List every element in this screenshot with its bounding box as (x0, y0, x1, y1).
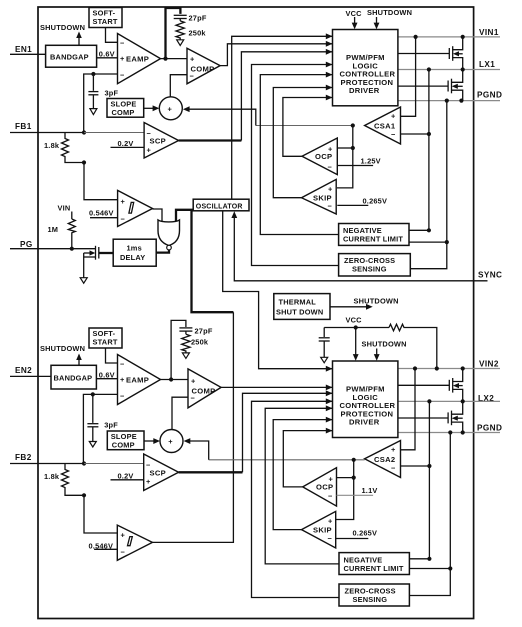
0.546V reference label (ch2) (89, 542, 118, 551)
wire SHUTDOWN to PWM2 (arrow) (374, 349, 380, 361)
wire thermal shutdown output (arrow) (330, 304, 373, 310)
wire slope comp2 to summer2 (arrow) (144, 438, 160, 444)
wire PGCMP1 output to OR gate (153, 209, 163, 222)
wire summer2 to COMP2 minus (172, 397, 188, 429)
comparator OCP1 (302, 138, 337, 175)
node PGND1 / FET source (459, 99, 463, 103)
current sense amp CSA1 (365, 107, 401, 144)
svg-text:250k: 250k (189, 29, 207, 38)
transistor lowside FET (ch2) (448, 401, 463, 432)
node VIN1 / FET drain (461, 35, 465, 39)
node PG / 1M junction (70, 247, 74, 251)
wire soft-start1 to EAMP1 minus (106, 28, 118, 43)
svg-text:−: − (146, 461, 151, 470)
svg-text:CURRENT LIMIT: CURRENT LIMIT (344, 564, 404, 573)
svg-text:EN1: EN1 (15, 45, 32, 54)
svg-text:−: − (120, 360, 125, 369)
svg-text:COMP: COMP (112, 441, 135, 450)
wire oscillator to PWM2 input1 (223, 211, 333, 372)
wire CSA1 output to OCP1/SKIP1 plus (337, 126, 353, 188)
svg-text:27pF: 27pF (195, 327, 213, 336)
wire PWM1 lowside gate (398, 85, 448, 87)
node LX2 / FET (461, 399, 465, 403)
svg-text:START: START (93, 17, 118, 26)
pin LX2 (398, 394, 500, 403)
wire bandgap2 to shutdown arrow (76, 354, 82, 366)
svg-text:1.1V: 1.1V (362, 486, 378, 495)
svg-text:+: + (391, 445, 396, 454)
wire OCP2 output to PWM2 input7 (283, 428, 332, 487)
node FB2 divider top (82, 461, 86, 465)
capacitor 3pF (ch1) (88, 74, 118, 109)
ground (VCC cap) (321, 357, 328, 363)
ground (PG FET source) (80, 278, 87, 284)
svg-text:1.8k: 1.8k (44, 472, 60, 481)
SHUTDOWN label (ch1 top) (367, 8, 412, 17)
svg-text:EAMP: EAMP (126, 376, 149, 385)
node NCL2 / PGND column (448, 566, 452, 570)
ground (250k ch2) (182, 353, 189, 359)
wire VCC2 rail (324, 327, 389, 329)
svg-text:−: − (391, 130, 396, 139)
node CSA1 minus / LX column (427, 132, 431, 136)
wire oscillator to PWM1 input1 (232, 33, 333, 199)
VIN label (PG pullup) (58, 204, 72, 220)
PWM/PFM controller block (ch1) (333, 30, 398, 106)
pin PG (10, 240, 96, 249)
svg-text:3pF: 3pF (104, 421, 118, 430)
svg-text:VCC: VCC (346, 316, 363, 325)
svg-text:COMP: COMP (112, 108, 135, 117)
svg-text:1M: 1M (48, 225, 59, 234)
SHUTDOWN net label (ch1) (40, 23, 85, 32)
node divider mid (ch2) (82, 493, 86, 497)
comparator SKIP2 (302, 511, 336, 548)
wire COMP1 output to PWM1 input2 (220, 41, 332, 66)
pin VIN1 (398, 28, 500, 37)
wire PWM1 highside gate (398, 53, 450, 55)
pin LX1 (398, 60, 500, 70)
wire 1ms delay to PG FET gate (99, 252, 114, 254)
node EAMP2 output / compensation (169, 377, 173, 381)
capacitor 27pF (ch1) (174, 14, 207, 23)
svg-text:+: + (191, 377, 196, 386)
wire bandgap2 to EAMP2 plus (97, 378, 118, 380)
node FB1 divider top (82, 130, 86, 134)
comparator SCP2 (144, 454, 179, 491)
wire LX1 to CSA1 minus (401, 70, 429, 231)
node CSA2 minus / LX column (427, 464, 431, 468)
svg-text:−: − (191, 394, 196, 403)
SHUTDOWN net label (thermal) (354, 297, 399, 306)
wire compensation hook to top rail (166, 8, 181, 59)
svg-text:−: − (147, 129, 152, 138)
thermal shutdown block (274, 294, 330, 320)
node OCP2 plus tap (352, 476, 356, 480)
SHUTDOWN net label (ch2) (40, 344, 85, 353)
svg-text:SHUTDOWN: SHUTDOWN (40, 344, 85, 353)
svg-text:PGND: PGND (477, 424, 502, 433)
node EAMP2 fb / 3pF junction (91, 392, 95, 396)
transistor highside FET (ch1) (449, 37, 462, 70)
comparator PGCMP1 (0.546V) (118, 190, 153, 226)
comparator SCP1 (144, 123, 179, 159)
node EAMP1 fb / 3pF junction (91, 72, 95, 76)
comparator COMP2 (188, 369, 221, 408)
summing junction (ch1) (159, 97, 182, 120)
wire COMP2 output to PWM2 input2 (221, 385, 332, 391)
wire ZCS2 to PWM2 input4 (252, 398, 340, 597)
node PGND2 / FET source (461, 430, 465, 434)
current sense amp CSA2 (365, 441, 401, 478)
svg-text:+: + (190, 55, 195, 64)
svg-text:0.546V: 0.546V (89, 209, 114, 218)
svg-text:BANDGAP: BANDGAP (54, 374, 93, 383)
svg-text:250k: 250k (191, 338, 209, 347)
node VIN2 / VCC resistor (435, 366, 439, 370)
pin FB2 (10, 453, 84, 464)
wire compensation hook (ch2) (171, 320, 186, 379)
wire slope comp to summer1 (arrow) (144, 105, 160, 111)
svg-text:−: − (391, 464, 396, 473)
resistor VCC to VIN2 (389, 324, 437, 368)
capacitor 27pF (ch2) (179, 327, 212, 336)
wire NCL2 sense PGND (409, 433, 450, 596)
wire PWM2 lowside gate (398, 417, 448, 419)
wire bandgap1 to shutdown arrow (76, 32, 82, 46)
0.6V reference label (ch1) (99, 50, 115, 59)
svg-text:+: + (168, 105, 173, 114)
svg-text:SCP: SCP (150, 469, 167, 478)
svg-text:LX1: LX1 (479, 60, 495, 69)
svg-text:SHUTDOWN: SHUTDOWN (354, 297, 399, 306)
svg-text:−: − (120, 71, 125, 80)
wire summer1 to COMP1 minus (170, 75, 187, 97)
node VIN1 / CSA1 sense (414, 35, 418, 39)
node VIN2 / CSA2 sense (413, 366, 417, 370)
wire NCL1 sense PGND (409, 101, 447, 269)
node OCP1 plus tap (351, 146, 355, 150)
wire LX2 to CSA2 minus (401, 401, 430, 558)
wire CSA2 output to OCP2/SKIP2 plus (336, 460, 354, 520)
svg-text:SYNC: SYNC (478, 271, 502, 280)
svg-text:FB1: FB1 (15, 122, 32, 131)
negative current limit block (ch1) (339, 224, 409, 246)
wire EAMP2 output to COMP2 plus (161, 379, 189, 381)
soft-start block SS1 (89, 8, 122, 28)
svg-text:−: − (328, 163, 333, 172)
svg-text:SHUTDOWN: SHUTDOWN (367, 8, 412, 17)
wire EAMP1 feedback input (84, 74, 118, 133)
pin VIN2 (398, 360, 500, 369)
ground (250k ch1) (177, 40, 184, 46)
resistor 1M (48, 219, 76, 249)
svg-text:SENSING: SENSING (353, 595, 388, 604)
wire bandgap1 to EAMP1 plus (97, 57, 118, 59)
0.2V reference label (ch1) (111, 139, 145, 148)
svg-text:CURRENT LIMIT: CURRENT LIMIT (343, 235, 403, 244)
svg-text:27pF: 27pF (189, 14, 207, 23)
svg-text:COMP: COMP (191, 65, 215, 74)
wire soft-start2 to EAMP2 minus (106, 348, 118, 363)
svg-text:VIN: VIN (58, 204, 71, 213)
VCC label (ch1) (346, 9, 363, 18)
svg-text:3pF: 3pF (105, 89, 119, 98)
node VIN2 / FET drain (461, 366, 465, 370)
svg-text:−: − (190, 72, 195, 81)
svg-text:+: + (146, 477, 151, 486)
svg-text:PGND: PGND (477, 91, 502, 100)
svg-text:−: − (121, 548, 126, 557)
0.265V reference label (ch2) (336, 529, 377, 539)
svg-text:EAMP: EAMP (126, 55, 149, 64)
wire divider to PG comparator2 plus (84, 495, 117, 533)
pin SYNC (478, 271, 502, 280)
1.1V reference label (337, 486, 378, 495)
node PGND1 / sense column (445, 99, 449, 103)
svg-text:FB2: FB2 (15, 453, 32, 462)
wire CSA2 output to summer2 (arrow) (184, 438, 365, 460)
svg-text:+: + (328, 185, 333, 194)
node divider mid (ch1) (82, 160, 86, 164)
wire SKIP2 output to PWM2 input6 (273, 417, 332, 530)
wire NCL2 to PWM2 input5 (265, 405, 339, 564)
wire VIN2 to CSA2 plus (401, 369, 416, 450)
svg-text:PG: PG (20, 240, 33, 249)
svg-text:OCP: OCP (316, 483, 333, 492)
wire VCC to PWM1 (arrow) (352, 17, 358, 29)
svg-text:0.265V: 0.265V (353, 529, 378, 538)
svg-text:−: − (120, 392, 125, 401)
wire SKIP1 output to PWM1 input6 (273, 85, 332, 198)
zero-cross sensing block (ch1) (339, 254, 411, 276)
resistor 250k (ch1) (176, 21, 206, 40)
negative current limit block (ch2) (339, 553, 409, 575)
bandgap block BG2 (51, 365, 96, 389)
node NCL1 / LX column (427, 228, 431, 232)
0.6V reference label (ch2) (99, 371, 115, 380)
node LX2 / CSA2 sense (427, 399, 431, 403)
svg-text:BANDGAP: BANDGAP (50, 52, 89, 61)
wire SHUTDOWN to PWM1 (arrow) (374, 17, 380, 29)
wire ZCS1 to PWM1 input4 (252, 62, 339, 266)
transistor lowside FET (ch1) (448, 70, 463, 101)
svg-text:SHUTDOWN: SHUTDOWN (40, 23, 85, 32)
svg-text:−: − (328, 202, 333, 211)
wire NCL1 to PWM1 input5 (260, 72, 338, 235)
node CSA2 output branch (352, 458, 356, 462)
svg-text:+: + (328, 517, 333, 526)
soft-start block SS2 (89, 328, 122, 348)
pin EN2 (10, 366, 51, 376)
svg-text:SENSING: SENSING (352, 265, 387, 274)
wire FB2 to SCP2 minus (84, 463, 144, 465)
error amplifier EAMP1 (118, 34, 161, 84)
wire SYNC pin to oscillator (231, 211, 487, 280)
svg-text:SCP: SCP (150, 137, 167, 146)
ground (3pF ch1) (90, 109, 97, 115)
svg-text:EN2: EN2 (15, 366, 32, 375)
wire VCC2 to PWM2 (arrow) (353, 328, 359, 361)
pin PGND (ch1) (398, 91, 502, 101)
svg-text:THERMAL: THERMAL (279, 298, 317, 307)
0.546V reference label (ch1) (89, 209, 118, 218)
svg-text:−: − (120, 39, 125, 48)
svg-text:−: − (121, 215, 126, 224)
wire divider to PG comparator plus (84, 163, 118, 200)
comparator COMP1 (187, 48, 220, 84)
svg-text:+: + (147, 146, 152, 155)
node NCL1 / PGND column (445, 240, 449, 244)
pin EN1 (10, 45, 46, 54)
svg-text:1.8k: 1.8k (44, 141, 60, 150)
ground (3pF ch2) (89, 442, 96, 448)
wire CSA1 output to summer1 (arrow) (183, 106, 353, 125)
wire VIN1 to CSA1 plus (401, 37, 416, 116)
wire SCP2 output to PWM2 input3 (179, 390, 333, 472)
node EAMP1 output / compensation (163, 57, 167, 61)
VCC label (ch2) (346, 316, 363, 325)
bandgap block BG1 (46, 45, 97, 67)
svg-text:+: + (121, 197, 126, 206)
wire NCL2 sense LX (409, 558, 429, 560)
comparator OCP2 (303, 468, 337, 506)
error amplifier EAMP2 (118, 355, 161, 405)
wire PGCMP2 output to OR gate (via mid rail) (152, 210, 233, 543)
resistor 1.8k (ch2) (44, 464, 84, 496)
svg-text:DRIVER: DRIVER (349, 86, 380, 95)
node LX1 / FET (461, 67, 465, 71)
resistor 1.8k (ch1) (44, 133, 84, 163)
svg-text:SHUTDOWN: SHUTDOWN (362, 340, 407, 349)
svg-text:−: − (328, 534, 333, 543)
1.25V reference label (337, 157, 381, 166)
delay block 1ms DELAY (113, 239, 156, 266)
svg-text:+: + (329, 475, 334, 484)
wire OR output to 1ms delay (156, 250, 169, 253)
0.265V reference label (337, 197, 387, 206)
svg-text:DRIVER: DRIVER (349, 418, 380, 427)
svg-text:+: + (120, 54, 125, 63)
wire SCP1 output to PWM1 input3 (179, 49, 333, 141)
svg-text:+: + (168, 437, 173, 446)
node LX1 / CSA1 sense (427, 67, 431, 71)
node PGND2 / sense column (448, 430, 452, 434)
wire OCP1 output to PWM1 input7 (283, 95, 333, 157)
svg-text:VIN2: VIN2 (479, 360, 499, 369)
svg-text:0.2V: 0.2V (118, 139, 134, 148)
OR gate (power-good) (158, 220, 180, 250)
slope compensation block (ch2) (107, 431, 144, 450)
zero-cross sensing block (ch2) (339, 584, 409, 606)
svg-text:+: + (328, 145, 333, 154)
svg-text:0.265V: 0.265V (363, 197, 388, 206)
0.2V reference label (ch2) (111, 472, 144, 481)
pin FB1 (10, 122, 84, 133)
svg-text:+: + (391, 112, 396, 121)
svg-text:1ms: 1ms (127, 244, 142, 253)
wire EAMP1 output to COMP1 plus (161, 58, 188, 60)
pin PGND (ch2) (398, 424, 502, 433)
node VCC2 (354, 325, 358, 329)
transistor highside FET (ch2) (449, 369, 462, 402)
node NCL2 / LX column (427, 557, 431, 561)
svg-text:COMP: COMP (192, 387, 216, 396)
svg-text:VCC: VCC (346, 9, 363, 18)
resistor 250k (ch2) (182, 334, 209, 353)
svg-text:SHUT DOWN: SHUT DOWN (276, 308, 323, 317)
svg-text:+: + (120, 375, 125, 384)
PWM/PFM controller block (ch2) (333, 361, 398, 438)
slope compensation block (ch1) (107, 99, 144, 118)
oscillator block (193, 199, 249, 211)
svg-text:1.25V: 1.25V (361, 157, 381, 166)
wire NCL1 sense LX (409, 229, 429, 231)
comparator SKIP1 (302, 179, 337, 214)
capacitor 3pF (ch2) (87, 394, 118, 441)
node CSA1 output branch (351, 123, 355, 127)
svg-text:OSCILLATOR: OSCILLATOR (196, 203, 243, 210)
wire FB1 to SCP1 minus (84, 132, 144, 134)
capacitor VCC bypass (319, 328, 330, 358)
svg-text:DELAY: DELAY (120, 253, 145, 262)
svg-text:START: START (93, 338, 118, 347)
wire EAMP2 feedback input (83, 394, 117, 463)
svg-text:+: + (121, 531, 126, 540)
transistor PG pulldown FET (84, 246, 99, 278)
SHUTDOWN label (ch2) (362, 340, 407, 349)
wire PWM2 highside gate (398, 384, 450, 386)
comparator PGCMP2 (0.546V) (117, 525, 152, 560)
svg-text:VIN1: VIN1 (479, 28, 499, 37)
summing junction (ch2) (160, 430, 183, 453)
svg-text:−: − (328, 492, 333, 501)
